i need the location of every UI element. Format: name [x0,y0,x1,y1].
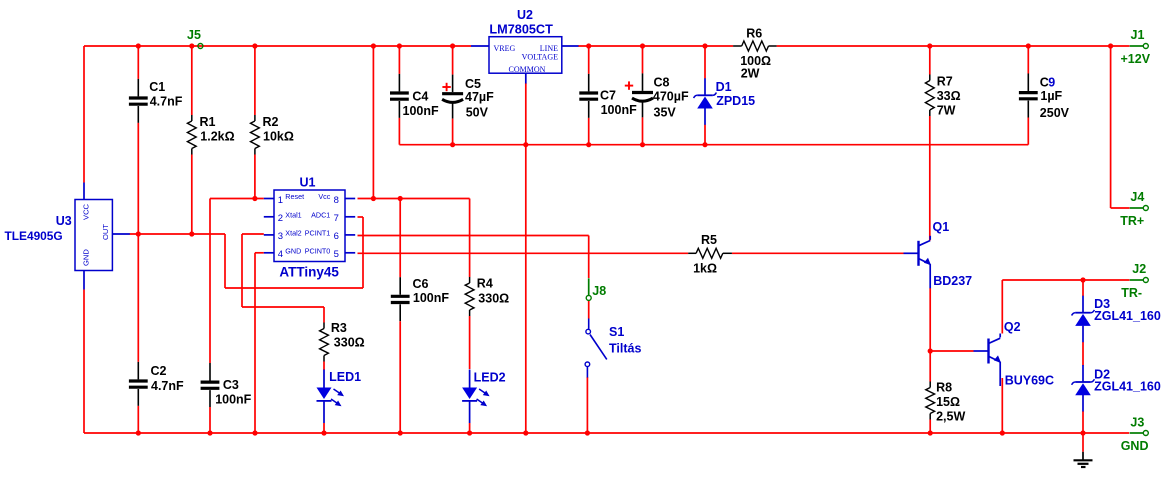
label C6 value [413,291,449,305]
resistor R8 [926,351,935,433]
junction Q1 emitter R8 Q2 base [928,348,933,353]
label Q2 part [1005,373,1054,387]
junction C6 Vcc row [398,196,403,201]
svg-text:100nF: 100nF [215,392,251,406]
junction S1 ground rail [585,430,590,435]
label Q1 part [933,274,972,288]
svg-text:GND: GND [1121,439,1149,453]
label U3 part [5,229,63,243]
svg-text:ZGL41_160: ZGL41_160 [1094,309,1161,323]
wire GND row (U1 pin4) [255,252,264,254]
svg-text:330Ω: 330Ω [478,292,509,306]
resistor R1 [187,46,196,234]
wire Q2 emitter drop [1001,378,1003,433]
svg-text:R8: R8 [936,380,952,394]
svg-text:5: 5 [334,249,339,260]
label J1 [1131,28,1145,42]
connector J4 [1130,206,1149,211]
label C9 volt [1040,106,1070,120]
svg-text:J4: J4 [1130,190,1144,204]
svg-text:J8: J8 [592,284,606,298]
svg-text:C6: C6 [413,277,429,291]
wire U1 pin7 stub row [358,216,364,218]
label C9 [1040,75,1056,89]
wire Q1 emitter drop [929,288,931,351]
connector J2 [1130,278,1149,283]
svg-text:2: 2 [278,213,283,224]
svg-text:J5: J5 [187,28,201,42]
wire ground rail [84,432,1129,434]
label S1 name [609,341,641,355]
junction R7 top rail [927,43,932,48]
wire J4 branch riser [1110,46,1112,208]
junction C8 top rail [640,43,645,48]
svg-text:47µF: 47µF [465,90,494,104]
junction C5 mid rail [450,142,455,147]
label C2 value [151,379,184,393]
svg-text:ZGL41_160: ZGL41_160 [1094,380,1161,394]
wire Q2 collector riser [1001,280,1003,334]
wire R3 top lead [323,307,325,323]
label R6 watt [741,66,760,80]
svg-text:C5: C5 [465,77,481,91]
junction C5 top rail [450,43,455,48]
wire Vcc row (U1 pin8) [358,198,470,200]
junction C1 top rail [136,43,141,48]
label R6 value [740,54,771,68]
label R8 [936,380,952,394]
label C5 volt [466,105,489,119]
svg-text:Tiltás: Tiltás [609,341,641,355]
svg-text:7: 7 [334,213,339,224]
svg-text:U2: U2 [517,8,533,22]
svg-text:GND: GND [285,247,301,256]
svg-text:R6: R6 [746,27,762,41]
label J5 [187,28,201,42]
junction C2 ground rail [136,430,141,435]
junction C9 top rail [1026,43,1031,48]
svg-text:R3: R3 [331,321,347,335]
svg-text:15Ω: 15Ω [936,395,960,409]
svg-text:4: 4 [278,249,283,260]
junction D1 mid rail [702,142,707,147]
label U2 [517,8,533,22]
label J4 [1130,190,1144,204]
wire D3 to D2 [1082,342,1084,366]
connector J1 [1130,44,1149,49]
svg-text:LED2: LED2 [474,371,506,385]
wire top rail left (+5V net) [84,45,471,47]
junction C6 ground rail [398,430,403,435]
label R1 [200,115,216,129]
svg-text:S1: S1 [609,325,624,339]
label Q2 [1004,320,1021,334]
label J3 [1130,415,1144,429]
switch S1 [585,319,607,378]
wire Xtal2 jog down [241,234,243,307]
svg-text:1kΩ: 1kΩ [693,262,717,276]
label C5 [465,77,481,91]
label R8 watt [936,409,965,423]
wire +5V riser to Vcc row [372,46,374,199]
wire R5 to Q1 base [732,252,904,254]
label R2 value [263,130,294,144]
wire J8 to S1 [588,301,590,319]
label C7 [600,88,616,102]
label J2 net [1121,286,1142,300]
label R7 watt [937,103,956,117]
label R8 value [936,395,960,409]
svg-text:LED1: LED1 [329,370,361,384]
svg-text:1: 1 [278,195,283,206]
wire U3 OUT row [130,233,226,235]
svg-text:C2: C2 [151,364,167,378]
svg-text:100nF: 100nF [601,103,637,117]
voltage regulator U2 LM7805CT [471,37,579,84]
svg-text:100nF: 100nF [403,104,439,118]
IC U1 ATTiny45 [264,190,355,262]
zener diode D2 [1072,365,1095,412]
wire J4 branch row [1111,207,1130,209]
capacitor C9 [1019,46,1038,145]
junction D1 top rail [702,43,707,48]
capacitor C8 [625,46,653,145]
svg-text:Xtal1: Xtal1 [285,211,301,220]
svg-text:R7: R7 [937,74,953,88]
svg-text:100nF: 100nF [413,291,449,305]
junction R2 top rail [252,43,257,48]
svg-text:7W: 7W [937,103,956,117]
resistor R7 [925,46,934,116]
svg-text:BD237: BD237 [933,274,972,288]
svg-text:COMMON: COMMON [509,65,546,74]
label C1 value [150,95,183,109]
junction J4 branch top rail [1108,43,1113,48]
wire Reset to C3 [209,199,211,364]
svg-text:LM7805CT: LM7805CT [489,23,553,37]
svg-text:Q1: Q1 [933,220,950,234]
wire U3 VCC riser [83,46,85,183]
label D1 [716,80,732,94]
wire Q1 emitter to Q2 base [930,350,973,352]
label D1 part [716,94,755,108]
junction D3 TR- row [1080,277,1085,282]
label U2 part [489,23,553,37]
connector J3 [1130,431,1149,436]
svg-text:Xtal2: Xtal2 [285,229,301,238]
capacitor C7 [579,46,598,145]
label R7 value [937,89,961,103]
wire PCINT1 row (U1 pin6) [358,235,589,237]
label R4 [477,277,493,291]
wire mid rail [399,144,1028,146]
svg-text:J3: J3 [1130,415,1144,429]
svg-text:4.7nF: 4.7nF [150,95,183,109]
label S1 [609,325,624,339]
wire U2 COMMON drop to ground [525,83,527,433]
svg-text:6: 6 [334,231,339,242]
wire ADC1 return row [225,287,363,289]
label D2 part [1094,380,1161,394]
label C4 [412,89,428,103]
label C2 [151,364,167,378]
resistor R5 [688,248,732,258]
label R6 [746,27,762,41]
svg-text:ATTiny45: ATTiny45 [279,265,339,280]
LED LED2 [462,370,490,434]
svg-text:TR-: TR- [1121,286,1142,300]
wire PCINT1 drop to J8 [588,236,590,279]
label C4 value [403,104,439,118]
transistor Q2 [974,334,1002,387]
label LED1 [329,370,361,384]
capacitor C2 [129,234,148,433]
label J4 net [1120,214,1144,228]
svg-text:VCC: VCC [82,203,91,220]
wire top rail right segment A [578,45,733,47]
wire J2 row to D3 [1082,280,1084,296]
label R5 value [693,262,717,276]
svg-text:33Ω: 33Ω [937,89,961,103]
svg-text:ZPD15: ZPD15 [716,94,755,108]
wire U3 GND drop [83,290,85,434]
wire D1 cathode to mid rail [704,125,706,145]
capacitor C1 [129,46,148,234]
svg-text:330Ω: 330Ω [334,335,365,349]
label J2 [1132,262,1146,276]
label U3 [56,214,72,228]
junction LED1 ground rail [321,430,326,435]
label LED2 [474,371,506,385]
junction C1 OUT row [136,231,141,236]
label J3 net [1121,439,1149,453]
svg-text:C8: C8 [654,75,670,89]
svg-text:BUY69C: BUY69C [1005,373,1054,387]
svg-text:ADC1: ADC1 [311,211,330,220]
label C8 volt [654,105,677,119]
wire TR- row to J2 [1002,279,1129,281]
svg-text:TLE4905G: TLE4905G [5,229,63,243]
svg-text:R2: R2 [263,115,279,129]
svg-text:2,5W: 2,5W [936,409,965,423]
label C6 [413,277,429,291]
label C3 [223,378,239,392]
zener diode D3 [1072,296,1095,343]
LED LED1 [317,370,345,434]
wire D2 to ground rail [1082,411,1084,433]
resistor R2 [251,46,260,199]
svg-text:1µF: 1µF [1040,89,1062,103]
svg-text:J1: J1 [1131,28,1145,42]
junction C7 top rail [586,43,591,48]
svg-text:GND: GND [82,249,91,266]
junction ground symbol rail [1080,430,1085,435]
svg-text:250V: 250V [1040,106,1070,120]
label D3 [1094,297,1110,311]
svg-text:VREG: VREG [494,44,516,53]
svg-text:Reset: Reset [285,192,304,201]
svg-text:OUT: OUT [101,224,110,240]
connector J5 [198,43,203,48]
wire Xtal2 row (U1 pin3) [242,233,264,235]
svg-text:TR+: TR+ [1120,214,1144,228]
svg-text:Q2: Q2 [1004,320,1021,334]
wire PCINT0 row to R5 [358,252,689,254]
label U1 part [279,265,339,280]
wire S1 to ground rail [586,377,588,433]
svg-text:R1: R1 [200,115,216,129]
svg-text:C4: C4 [412,89,428,103]
svg-text:3: 3 [278,231,283,242]
zener diode D1 [694,78,717,125]
svg-text:R4: R4 [477,277,493,291]
svg-text:U1: U1 [300,175,316,189]
capacitor C6 [391,199,410,434]
svg-text:1.2kΩ: 1.2kΩ [200,130,234,144]
connector J8 [586,278,591,300]
svg-text:2W: 2W [741,66,760,80]
ground symbol [1074,433,1093,467]
svg-text:PCINT1: PCINT1 [305,229,331,238]
wire OUT jog down [224,234,226,288]
svg-text:50V: 50V [466,105,489,119]
svg-text:35V: 35V [654,105,677,119]
wire top rail right segment B (+12V net) [777,45,1130,47]
label U1 [300,175,316,189]
junction +5V riser top rail [371,43,376,48]
junction C3 ground rail [207,430,212,435]
label R3 [331,321,347,335]
capacitor C3 [201,363,220,433]
wire Reset row (U1 pin1) [210,198,264,200]
svg-text:C3: C3 [223,378,239,392]
label C1 [149,80,165,94]
transistor Q1 [904,236,932,288]
resistor R3 [320,323,329,371]
capacitor C4 [390,46,409,145]
label J8 [592,284,606,298]
svg-text:C7: C7 [600,88,616,102]
label R3 value [334,335,365,349]
junction COMMON mid rail [523,142,528,147]
junction C8 mid rail [640,142,645,147]
label C9 value [1040,89,1062,103]
label C8 value [653,89,689,103]
label R7 [937,74,953,88]
resistor R4 [465,199,474,370]
junction C7 mid rail [586,142,591,147]
svg-text:U3: U3 [56,214,72,228]
junction R1 OUT row [189,231,194,236]
junction riser Vcc row [371,196,376,201]
svg-text:C1: C1 [149,80,165,94]
label R1 value [200,130,234,144]
label R4 value [478,292,509,306]
label Q1 [933,220,950,234]
IC U3 TLE4905G hall sensor [75,183,130,290]
label C8 [654,75,670,89]
label J1 net [1121,52,1151,66]
label D3 part [1094,309,1161,323]
junction Q2 emitter ground rail [1000,430,1005,435]
junction R8 ground rail [928,430,933,435]
svg-text:4.7nF: 4.7nF [151,379,184,393]
wire R7 to Q1 collector [929,116,931,241]
svg-text:+12V: +12V [1121,52,1151,66]
svg-text:VOLTAGE: VOLTAGE [522,53,559,62]
wire Xtal2 to R3 [242,306,324,308]
junction C4 top rail [397,43,402,48]
wire U1 GND drop [254,253,256,433]
capacitor C5 [442,46,463,145]
resistor R6 [733,41,777,51]
svg-text:10kΩ: 10kΩ [263,130,294,144]
svg-text:PCINT0: PCINT0 [305,247,331,256]
svg-text:D1: D1 [716,80,732,94]
svg-text:8: 8 [334,195,339,206]
wire D1 anode riser [704,46,706,79]
label D2 [1094,368,1110,382]
label C7 value [601,103,637,117]
label R2 [263,115,279,129]
svg-text:9: 9 [1048,75,1055,89]
junction U1 GND ground rail [252,430,257,435]
wire ADC1 jog up [362,217,364,288]
label C3 value [215,392,251,406]
junction R1 top rail [189,43,194,48]
label C5 value [465,90,494,104]
junction R2 Reset row [252,196,257,201]
svg-text:R5: R5 [701,233,717,247]
junction COMMON ground rail [523,430,528,435]
svg-text:470µF: 470µF [653,89,689,103]
svg-text:J2: J2 [1132,262,1146,276]
junction LED2 ground rail [467,430,472,435]
svg-text:Vcc: Vcc [318,192,330,201]
label R5 [701,233,717,247]
